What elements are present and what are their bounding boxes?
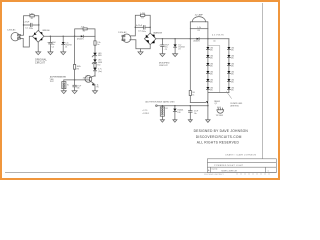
wire C1 to bridge top [38,25,40,31]
wire C1 horizontal [24,24,39,26]
svg-text:CHART#: DAVE JOHNSON: CHART#: DAVE JOHNSON [225,154,256,157]
wire plug1 bottom prong to bridge left corner (routed) [20,36,32,47]
designed by text [194,129,249,144]
svg-text:TOP VIEW: TOP VIEW [216,115,224,117]
ground (C5) [160,54,165,57]
ground (C4) [72,91,77,94]
ground (B1) [61,91,66,94]
ground (B2) [160,120,164,122]
node rail2/C5 [162,38,163,39]
label 1N4001 D10 [177,110,183,114]
svg-text:4w LAMP: 4w LAMP [195,13,204,16]
capacitor C4 4.7uF [73,80,77,91]
svg-text:GRN: GRN [98,62,103,64]
svg-text:1A BRIDGE: 1A BRIDGE [153,32,163,35]
svg-text:R5: R5 [97,87,99,89]
svg-text:POWERED NIGHT LIGHT: POWERED NIGHT LIGHT [214,165,243,167]
svg-text:13 WHITE LEDS: 13 WHITE LEDS [230,103,242,105]
label 2N2222 Q1 [83,75,89,79]
orange border [0,0,280,180]
svg-text:(1N4007): (1N4007) [193,41,200,43]
svg-text:C5: C5 [165,49,167,51]
transistor Q2 [190,93,208,120]
label 2N4403 Q2 [214,101,220,105]
svg-text:Q1: Q1 [86,75,88,77]
wire C3 horizontal [135,26,150,28]
label R6 1k [192,92,194,96]
node C3 left [135,27,136,28]
svg-text:Z3: Z3 [178,49,180,51]
wire C2 branch [49,36,51,42]
diode D11 on rail2 [197,38,200,40]
battery holder B2 [160,105,164,120]
wire plug2 top prong to C3 node [130,27,135,36]
title row2 divider right [265,167,267,172]
ground (Z3) [173,54,178,57]
svg-text:Z1: Z1 [65,47,67,49]
node: C1 right junction [38,24,39,25]
LEDs left string [206,47,209,90]
title block row line 2 [207,166,276,168]
wire rail to left string [207,39,209,93]
svg-text:NIGHT-LIGHT.CIR: NIGHT-LIGHT.CIR [221,171,237,173]
svg-text:Q2: Q2 [215,103,217,105]
sheet frame right [262,3,264,159]
AC plug P2 [122,34,131,42]
node rail1/Z1 [63,36,64,37]
rail1 corner down to chain [94,36,96,41]
zener Z3 [174,39,177,54]
node base/cap junction [74,79,75,80]
svg-text:ALL RIGHTS RESERVED: ALL RIGHTS RESERVED [197,141,240,145]
svg-text:4.5 VOLTS: 4.5 VOLTS [212,35,224,37]
LEDs right string [227,47,230,90]
label C3 250v [138,31,146,34]
svg-text:TEXT: TEXT [50,81,54,83]
LED2 [92,59,97,63]
svg-text:1.2M: 1.2M [140,13,145,15]
label +9 TO +12VDC [142,110,150,115]
svg-text:D10: D10 [177,112,180,114]
terminal [156,105,158,107]
wire bottom join [208,92,229,94]
ground (D10) [173,120,177,122]
resistor R8 1.5k (chain) [94,41,96,45]
svg-text:FILE: NIGHT-LIGHT REV 2: FILE: NIGHT-LIGHT REV 2 [204,174,223,176]
wire zener Z1 branch [62,36,64,42]
lamp bump [192,17,205,22]
sheet frame bottom [5,172,276,174]
resistor R7 loop wires [135,15,140,27]
svg-text:R5: R5 [198,30,200,32]
svg-text:750: 750 [97,65,100,67]
svg-text:Drawn By: Drawn By [212,168,218,170]
diode D10 [173,105,176,120]
svg-text:* SEE: * SEE [49,79,53,81]
capacitor C3 [144,26,145,30]
label MODIFIED CIRCUIT [159,63,170,67]
label 15v 1N4744 Z3 [178,44,184,50]
svg-text:(1N4007): (1N4007) [77,39,84,41]
label 1k (Q1 emitter resistor) [97,85,99,89]
zener Z2 [93,68,96,71]
bridge rectifier BR2 [144,33,156,45]
label ORIGINAL CIRCUIT [35,59,48,65]
ground (Q1 emitter) [93,91,98,94]
node C3 right [150,27,151,28]
wire right string [228,39,230,93]
svg-text:B1: B1 [166,108,168,110]
ground (Z1) [61,52,66,55]
ground tap (BR2) [140,49,142,52]
svg-text:1.2M: 1.2M [29,14,34,16]
svg-text:4.7k: 4.7k [81,27,85,29]
capacitor C5 [161,39,165,54]
ruler ticks [237,173,269,175]
transistor Q1 [85,76,95,86]
ground (Q2) [206,120,210,123]
svg-text:R3: R3 [77,68,79,70]
svg-text:(SEE TEXT): (SEE TEXT) [230,105,239,107]
title block outer box [207,159,276,173]
node lamp left leg [190,38,191,39]
svg-text:1: 1 [268,170,269,172]
AC plug P1 [11,33,20,41]
svg-text:250v: 250v [29,28,33,30]
ground (bridge1) [36,52,41,55]
label 4.7uF 16v [194,111,198,115]
svg-text:2N2222: 2N2222 [83,77,89,79]
capacitor C1 [31,23,32,27]
wire C3 to bridge2 top [149,27,151,33]
svg-text:R2: R2 [83,31,85,33]
TO-92 pinout icon [217,108,224,113]
base wire [64,79,86,81]
svg-text:C2: C2 [52,46,54,48]
resistor R1 [30,15,34,17]
svg-text:+9 TO: +9 TO [142,110,148,112]
svg-text:DESIGNED BY DAVE JOHNSON: DESIGNED BY DAVE JOHNSON [194,129,249,133]
node Q2 emitter junction [207,105,208,106]
resistor R9 750 (chain) [94,63,96,67]
resistor R6 [189,91,191,96]
svg-text:DISCOVERCIRCUITS.COM: DISCOVERCIRCUITS.COM [196,135,242,139]
node rail1/C2 [50,36,51,37]
title block row line 1 [207,162,276,164]
node: C1 left junction [23,24,24,25]
LED1 [92,53,97,57]
node rail2/Z3 [174,38,175,39]
svg-text:CIRCUIT: CIRCUIT [35,61,46,64]
resistor R5 box (lamp block) [190,22,208,29]
lamp assembly legs [189,29,191,39]
resistor R7 1.2M [140,14,144,16]
wire rail1 [44,35,81,37]
labels right string [231,48,235,92]
ground (C2) [48,52,53,55]
svg-text:120V AC: 120V AC [7,29,16,32]
resistor R1 loop wires [24,16,30,25]
label 1.2k R5 inside box [197,27,200,32]
diode D1 on rail1 [81,35,84,37]
svg-text:BRIDGE: BRIDGE [43,30,51,32]
svg-text:120V AC: 120V AC [118,31,127,34]
svg-text:1k: 1k [192,95,194,97]
svg-text:CIRCUIT: CIRCUIT [159,65,169,67]
zener Z1 [62,42,65,45]
wire +9V line [157,105,208,107]
resistor R2 4.7k [83,28,87,30]
label 47uF 25v C5 [165,45,170,51]
rail2 [156,38,197,40]
ground (C6) [188,120,192,122]
label 5.1v 1N4733 Z1 [65,42,71,48]
sheet background [0,0,280,180]
svg-text:63v: 63v [77,87,80,89]
node rail1/R3 branch [74,36,75,37]
label 47uF 25v C2 [52,42,57,48]
svg-text:0.47uF: 0.47uF [136,25,143,27]
bridge rectifier BR1 [32,30,44,42]
capacitor C6 [189,105,193,120]
wire plug2 bottom prong routed to bridge2 bottom [130,40,150,49]
wire bridge bottom to ground [37,42,39,52]
capacitor C2 [49,42,53,44]
svg-text:250v: 250v [142,31,146,33]
labels left string [210,48,214,92]
title row2 divider left [210,167,212,172]
annotation arrow to LEDs [227,92,232,99]
svg-text:0.47uF: 0.47uF [23,22,30,24]
svg-text:9v: 9v [67,84,69,86]
label 1.5k 2w (R8) [97,42,100,46]
annotation 13 WHITE LEDS [230,103,242,107]
svg-text:16v: 16v [194,113,197,115]
battery holder B1 [62,80,66,91]
R6 branch [189,39,191,91]
svg-text:1.2k: 1.2k [197,27,200,29]
label 100k R3 [77,66,81,70]
wire down to 100k [74,36,76,64]
node lamp right leg [207,38,208,39]
svg-text:(5w): (5w) [98,71,102,73]
note: see text [49,79,53,83]
svg-text:+12VDC: +12VDC [142,113,150,115]
LED string enclosure box [208,46,220,93]
wire plug1 top prong to C1 node [20,25,23,35]
resistor R2 loop wires [75,29,83,36]
resistor R3 100k [74,64,76,69]
